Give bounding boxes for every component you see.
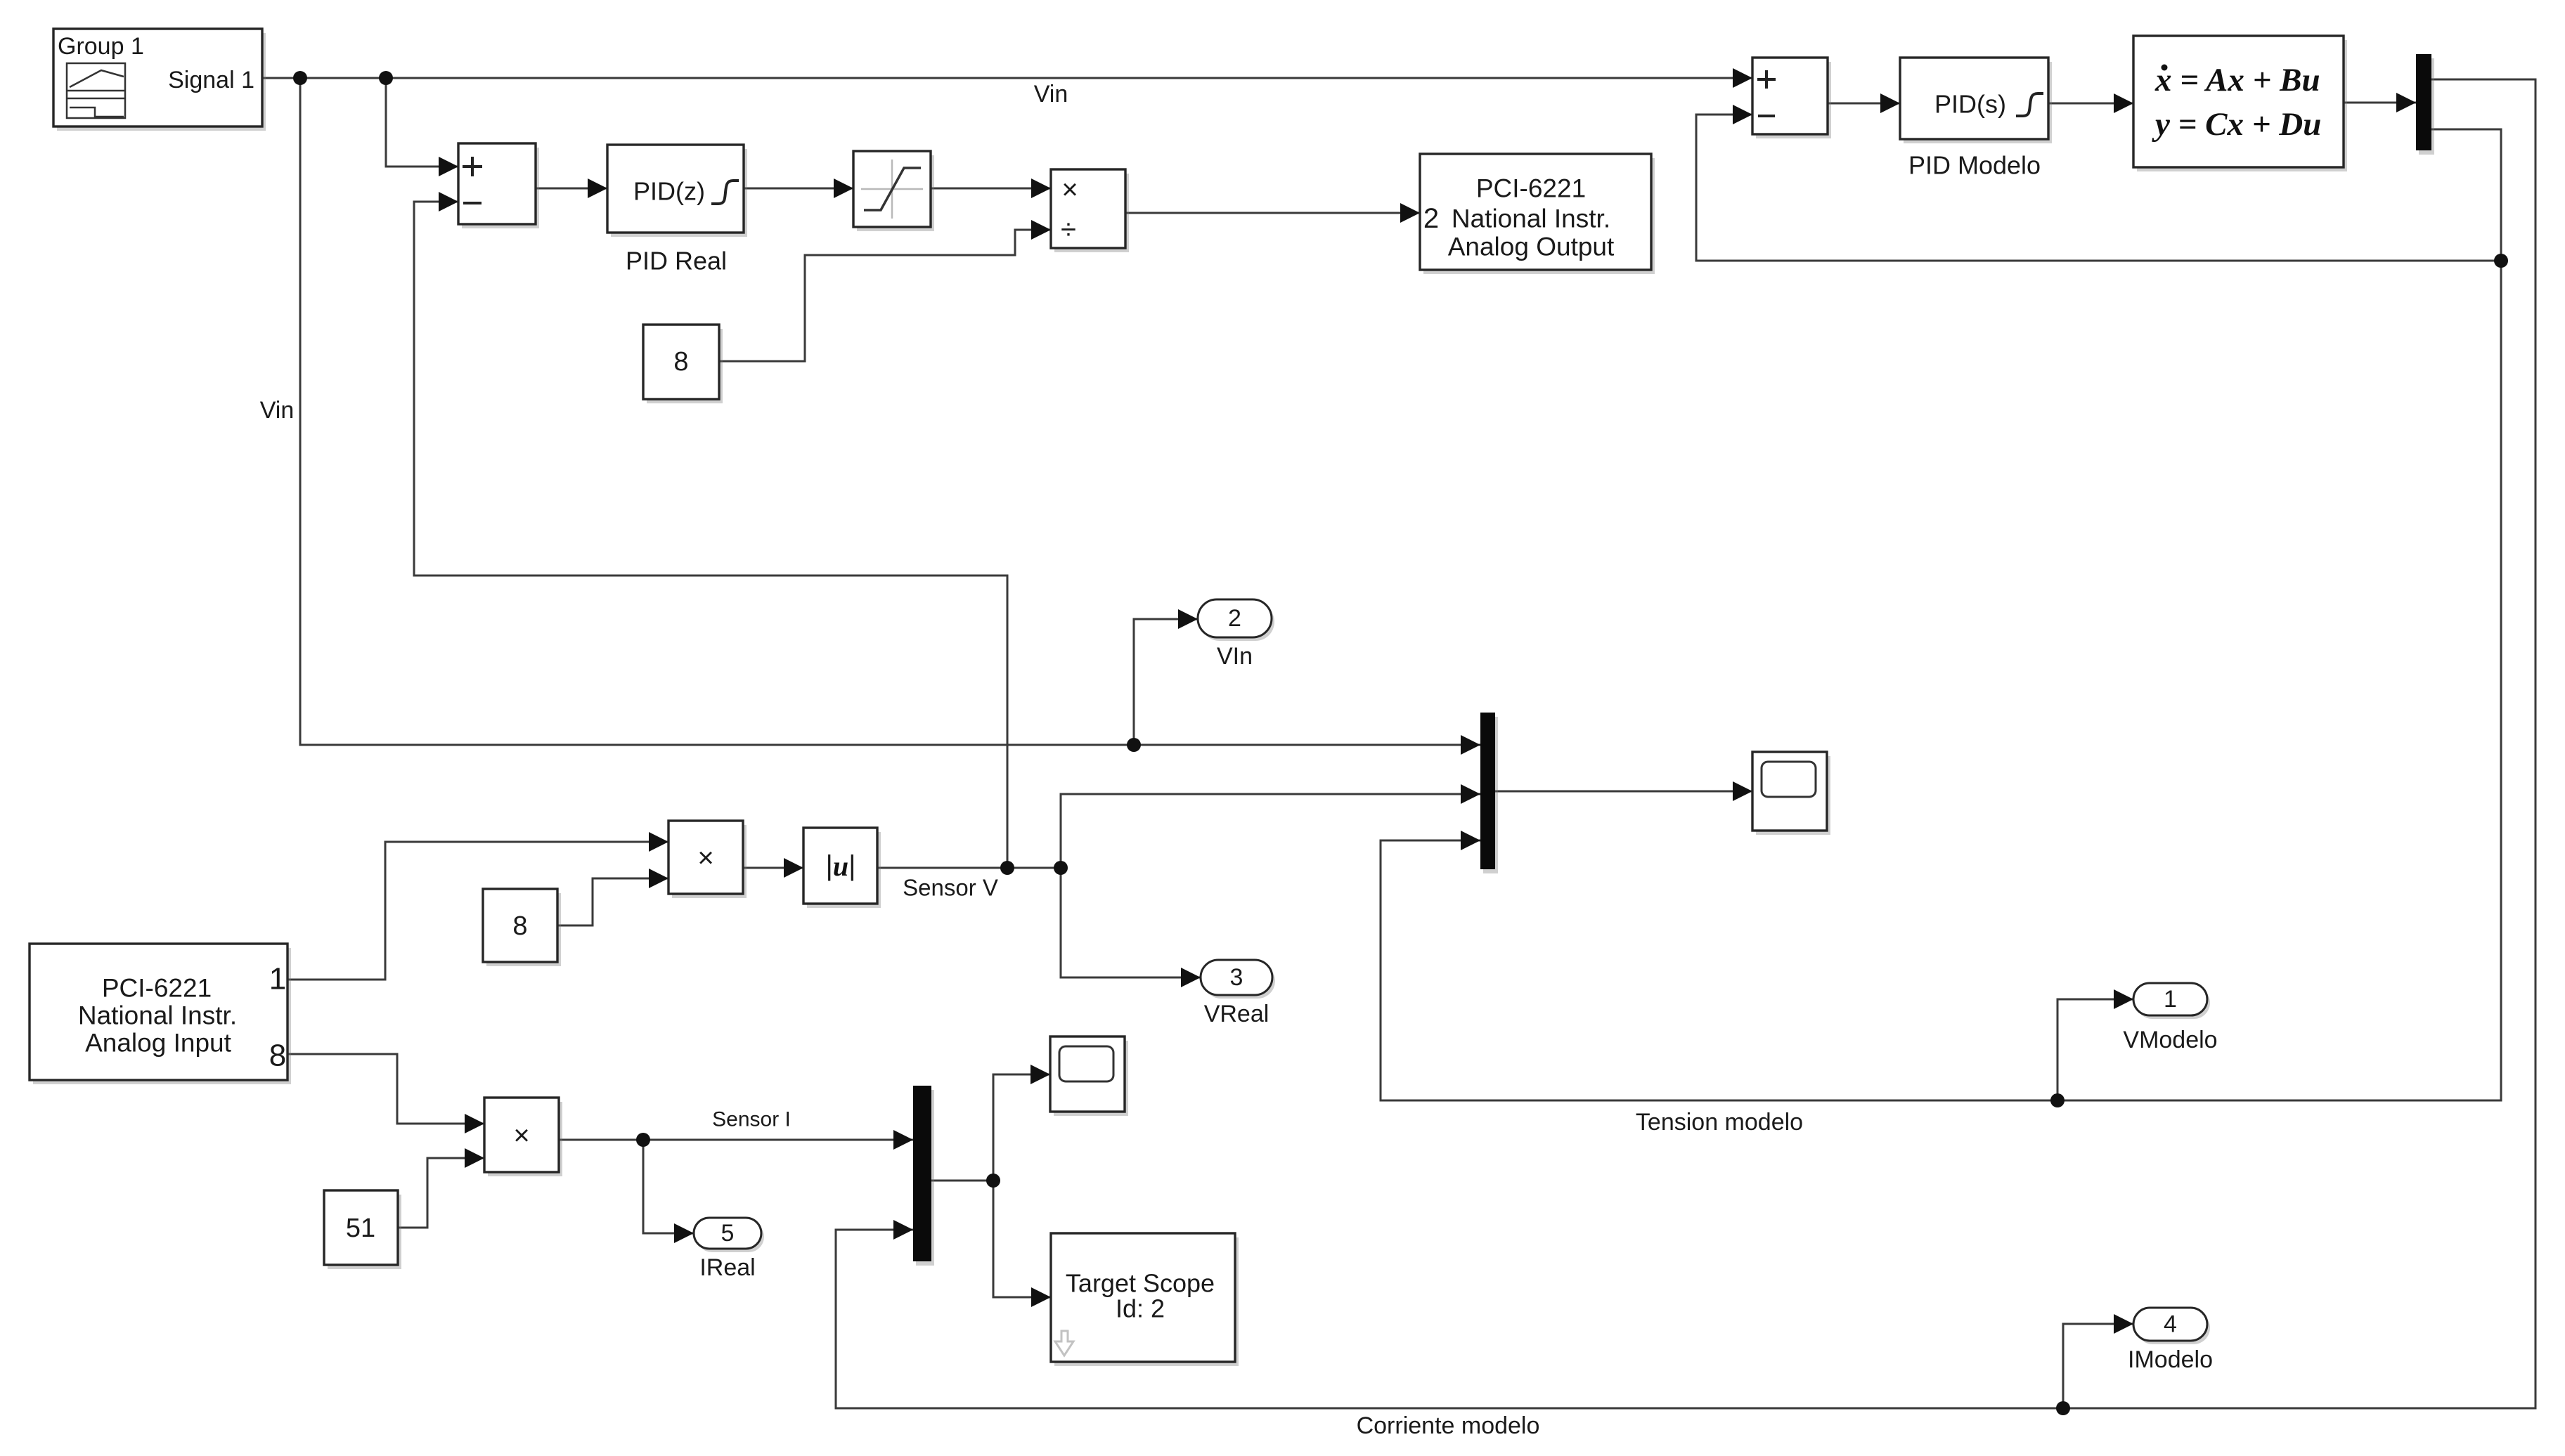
block PCI-6221 Analog Output [1420,154,1655,274]
wire feedback to Sum2 minus [1696,105,2501,261]
wire Constant8b to Product1 input2 [557,869,668,925]
constant block 8 (lower) [483,889,561,966]
wire Constant8a to Divide div input [719,220,1051,361]
demux Demux1 [2416,54,2434,155]
mux Mux3 (2 inputs) [913,1086,934,1266]
svg-text:8: 8 [512,911,527,941]
svg-text:Target Scope: Target Scope [1066,1269,1215,1298]
svg-text:IModelo: IModelo [2128,1346,2213,1373]
outport 4 IModelo [2128,1308,2213,1373]
wire Product1 to Abs [743,858,803,878]
wire Sum1 out to PID Real [536,178,607,198]
svg-text:National Instr.: National Instr. [1452,204,1610,233]
svg-text:VReal: VReal [1204,1001,1269,1027]
wire Saturation to Divide x input [931,178,1051,198]
junction VIn tap [1127,738,1141,752]
mux Mux2 (3 inputs) [1480,713,1498,873]
junction IModelo tap [2056,1401,2070,1415]
constant block 8 (top) [643,325,723,403]
svg-text:PCI-6221: PCI-6221 [1476,174,1586,203]
svg-text:PID Modelo: PID Modelo [1908,151,2041,180]
outport 5 IReal [694,1218,764,1281]
svg-text:PCI-6221: PCI-6221 [102,974,212,1003]
svg-text:Sensor V: Sensor V [903,875,998,901]
svg-text:IReal: IReal [699,1254,755,1281]
outport 1 VModelo [2123,983,2217,1053]
svg-text:Vin: Vin [1034,81,1068,108]
wire PID Real to Saturation [744,178,853,198]
product block Product1 (x) [668,821,747,898]
svg-text:PID(z): PID(z) [633,177,705,206]
wire center mux out to Scope1 [1495,781,1752,801]
wire branch down to Sum1 plus [386,78,458,176]
block Divide (x /) [1051,169,1129,252]
svg-text:51: 51 [346,1214,375,1243]
sum block Sum1 [458,143,539,228]
wire junction down to Target Scope [993,1181,1051,1307]
wire tap up to outport VModelo [2057,989,2133,1100]
wire Analog Input port8 to Product2 [287,1054,484,1133]
wire Analog Input port1 to Product1 [287,832,668,980]
wire SensorV feedback to Sum1 minus [414,192,1007,868]
svg-text:|u|: |u| [825,850,855,882]
svg-text:÷: ÷ [1061,214,1076,245]
block PID Real (PID(z)) [607,145,747,275]
junction VModelo tap [2050,1093,2065,1107]
svg-text:x = Ax + Bu: x = Ax + Bu [2154,62,2320,98]
svg-text:4: 4 [2164,1311,2177,1338]
svg-text:Vin: Vin [260,397,295,424]
svg-text:Analog Input: Analog Input [85,1029,232,1058]
svg-text:y = Cx + Du: y = Cx + Du [2152,106,2321,143]
svg-text:2: 2 [1423,203,1439,234]
svg-text:×: × [697,843,713,873]
outport 3 VReal [1201,960,1275,1027]
product block Product2 (x) [484,1098,562,1176]
svg-text:Group 1: Group 1 [58,33,144,60]
junction on Signal1 line A [293,71,307,85]
junction on Signal1 line B [379,71,393,85]
block Signal Builder Group 1 [53,29,266,131]
svg-text:1: 1 [2164,986,2177,1013]
wire Vin vertical to center mux input1 [300,78,1480,755]
svg-text:×: × [513,1120,529,1151]
wire StateSpace to Demux [2344,93,2416,112]
wire SensorV branch down to outport VReal [1061,868,1201,987]
wire junction up to Scope2 [993,1065,1050,1181]
svg-text:8: 8 [269,1039,286,1073]
svg-text:Tension modelo: Tension modelo [1636,1109,1803,1136]
block Saturation [853,151,934,231]
svg-text:×: × [1061,174,1078,205]
svg-text:1: 1 [269,962,286,996]
svg-text:Id: 2: Id: 2 [1116,1294,1165,1323]
wire PID Modelo to StateSpace [2048,93,2133,113]
wire Divide out to Analog Output [1125,203,1420,223]
constant block 51 [324,1190,401,1269]
scope block Scope2 [1050,1036,1128,1116]
svg-text:2: 2 [1228,605,1241,632]
svg-text:VIn: VIn [1217,643,1253,670]
block State-Space (x=Ax+Bu) [2133,36,2347,171]
outport 2 VIn [1198,599,1274,670]
wire tap down to outport IReal [643,1140,694,1243]
scope block Scope1 [1752,752,1830,835]
svg-text:PID Real: PID Real [626,247,727,275]
svg-text:Corriente modelo: Corriente modelo [1357,1412,1540,1439]
svg-text:VModelo: VModelo [2123,1027,2217,1053]
wire tap up to outport IModelo [2063,1314,2133,1408]
junction lower mux out [986,1174,1000,1188]
wire Sum2 out to PID Modelo [1828,93,1900,113]
sum block Sum2 [1752,58,1831,138]
wire Demux out2 right-down (tension path) [1381,129,2501,1100]
wire SensorV branch to center mux input2 [1061,784,1480,868]
junction SensorV B [1054,861,1068,875]
svg-text:Sensor I: Sensor I [712,1108,791,1131]
wire Constant51 to Product2 input2 [398,1148,484,1228]
svg-text:National Instr.: National Instr. [78,1001,237,1030]
svg-text:PID(s): PID(s) [1934,90,2006,119]
wire Abs out Sensor V line [877,867,1061,869]
wire tap up to outport VIn [1134,609,1198,745]
block Abs |u| [803,828,881,908]
svg-text:3: 3 [1230,964,1243,991]
junction SensorV A [1000,861,1014,875]
block PID Modelo (PID(s)) [1900,58,2052,180]
svg-text:5: 5 [721,1220,735,1247]
block PCI-6221 Analog Input [30,944,291,1084]
wire Demux out1 right-down (corriente path) [836,79,2535,1408]
wire Signal1 to Sum2 plus (Vin top line) [262,68,1752,88]
svg-text:Analog Output: Analog Output [1448,233,1615,261]
block Target Scope Id 2 [1051,1233,1239,1366]
wire lower mux out junction [931,1180,993,1182]
junction SensorI IReal tap [636,1133,650,1147]
wire Product2 out Sensor I to lower mux input1 [559,1130,913,1150]
svg-text:8: 8 [673,347,688,377]
svg-text:Signal 1: Signal 1 [168,67,254,93]
junction feedback sum2 [2494,254,2508,268]
